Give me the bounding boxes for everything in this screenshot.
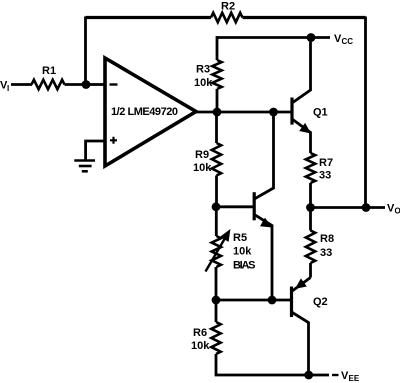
wire: op-amp output row to Q1 base: [193, 111, 292, 114]
wire: left vertical from feedback rail down to inverting input node: [84, 17, 87, 85]
wire: R5 bottom to lower bias node: [215, 267, 218, 300]
svg-text:R6: R6: [193, 327, 207, 339]
resistor R1: [32, 80, 65, 89]
label R9 10k: [193, 149, 212, 174]
svg-text:10k: 10k: [194, 77, 213, 89]
transistor Q2 emitter lead (from R8): [292, 278, 311, 292]
transistor Q1 emitter arrow: [299, 123, 311, 134]
svg-text:I: I: [7, 84, 9, 93]
resistor R3: [212, 60, 221, 89]
wire: VO row: [311, 206, 386, 209]
resistor R7: [306, 153, 315, 183]
svg-text:CC: CC: [342, 37, 354, 46]
transistor Qb emitter arrow: [260, 218, 272, 228]
wire: bias node to R5 top: [215, 207, 218, 236]
wire: R1 to op-amp inverting input: [65, 83, 107, 86]
transistor Q2 emitter arrow (PNP): [295, 278, 307, 289]
label VCC: [334, 33, 353, 46]
wire: right vertical from feedback rail down to VO node: [364, 17, 367, 208]
transistor Q1 collector lead to VCC: [292, 38, 311, 104]
node: VO output tap: [362, 203, 371, 212]
svg-text:R7: R7: [319, 157, 333, 169]
label R3 10k: [194, 64, 213, 90]
pin: op-amp plus input: [110, 137, 117, 144]
svg-text:R9: R9: [195, 149, 209, 161]
wire: VCC rail horizontal: [217, 36, 330, 39]
node: VEE rail / Q2 collector junction: [304, 371, 313, 380]
resistor R2: [211, 13, 243, 22]
label -VEE: [332, 374, 339, 376]
svg-text:Q1: Q1: [313, 107, 328, 119]
svg-text:R8: R8: [320, 233, 334, 245]
transistor Qb collector lead: [254, 112, 273, 199]
svg-text:33: 33: [319, 170, 331, 182]
wire: R9 bottom to bias node: [215, 176, 218, 208]
wire: lower bias node to R6 top: [215, 300, 218, 322]
label R5 10k BIAS: [233, 232, 256, 272]
wire: VO node down to R8: [309, 208, 312, 231]
label R7 33: [319, 157, 333, 182]
transistor Q1 emitter lead: [292, 119, 311, 153]
R5 wiper arrow: [206, 237, 227, 272]
label R8 33: [320, 233, 334, 259]
wire: R8 bottom to Q2 emitter: [309, 263, 312, 278]
transistor Qb (bias VBE multiplier) base bar: [253, 192, 256, 220]
transistor Q1 base bar: [290, 98, 293, 125]
resistor R8: [306, 231, 315, 264]
svg-text:10k: 10k: [191, 340, 210, 352]
node: Q1 base / bias collector junction: [269, 108, 278, 117]
resistor R9: [212, 143, 221, 176]
wire: feedback top rail right segment from R2 to right rail: [243, 16, 366, 19]
wire: output node down to R9: [215, 112, 218, 143]
node: R7/R8 junction on VO row: [306, 203, 315, 212]
label R6 10k: [191, 327, 210, 352]
resistor R6: [211, 322, 220, 354]
wire: R7 bottom to VO node: [309, 183, 312, 208]
node: inverting input summing junction: [82, 80, 91, 89]
node: VCC tap dot: [307, 33, 316, 42]
svg-text:R1: R1: [42, 65, 56, 77]
pin: op-amp minus input: [110, 83, 118, 85]
node: bias emitter / Q2 base junction: [268, 296, 277, 305]
wire: lower bias node to Q2 base: [216, 299, 290, 302]
svg-text:BIAS: BIAS: [233, 260, 256, 272]
wire: bias node to bias transistor base: [216, 205, 253, 208]
transistor Q2 collector lead to VEE: [292, 312, 309, 375]
node: R9/R5/bias-base junction: [212, 202, 221, 211]
op-amp U1 triangle 1/2 LME49720: [105, 58, 196, 166]
transistor Qb emitter lead: [254, 215, 272, 301]
node VI input terminal label: [0, 80, 9, 94]
node: R5/R6/Q2-base junction: [212, 296, 221, 305]
svg-text:Q2: Q2: [313, 296, 328, 308]
wire: R6 bottom to VEE rail: [216, 354, 329, 375]
wire: non-inverting input to ground: [86, 141, 106, 160]
wire: input VI to R1: [11, 83, 32, 86]
label VO: [387, 203, 400, 216]
node: output of op-amp / R3-R9 junction: [213, 108, 222, 117]
svg-text:1/2 LME49720: 1/2 LME49720: [111, 106, 178, 118]
ground symbol: [74, 161, 95, 172]
svg-text:R3: R3: [196, 64, 210, 76]
wire: feedback top rail left segment to R2: [86, 16, 212, 19]
svg-text:33: 33: [320, 247, 332, 259]
wire: R3 bottom to output node: [216, 89, 219, 112]
svg-text:O: O: [395, 207, 400, 216]
svg-text:10k: 10k: [233, 246, 252, 258]
transistor Q2 base bar: [290, 287, 293, 318]
svg-text:R2: R2: [221, 1, 235, 13]
wire: VCC rail down to R3 top: [216, 36, 219, 60]
svg-text:EE: EE: [349, 374, 360, 383]
svg-text:R5: R5: [233, 232, 247, 244]
resistor R5 (variable): [212, 236, 221, 267]
svg-text:10k: 10k: [193, 162, 212, 174]
